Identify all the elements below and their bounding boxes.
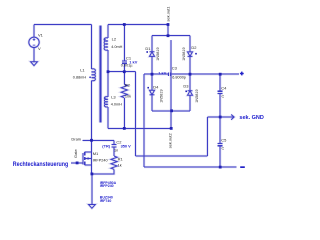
wire center tap drop: [135, 72, 137, 156]
node drain: [90, 139, 93, 142]
svg-text:0.88mH: 0.88mH: [73, 76, 87, 80]
diode D4: [150, 90, 155, 95]
svg-text:R2: R2: [125, 83, 131, 88]
svg-text:V: V: [38, 46, 41, 51]
wire bridge bottom rail: [152, 110, 190, 112]
diode D1: [150, 52, 155, 57]
wire sek.out1 rail: [108, 24, 168, 26]
svg-text:6.8000p: 6.8000p: [172, 75, 186, 79]
svg-text:0.001µ: 0.001µ: [121, 64, 134, 68]
capacitor C4: [218, 91, 223, 93]
resistor R1: [111, 156, 117, 169]
transistor M1 drain/body/source arms: [85, 152, 92, 165]
voltage source V1: [29, 37, 39, 47]
wire sek.out1 drop: [167, 25, 169, 36]
wire minus bottom rail: [144, 166, 236, 168]
svg-text:(TR): (TR): [102, 144, 110, 149]
ground (V1): [31, 62, 38, 66]
wire drain rail: [83, 139, 114, 141]
node R2 bottom: [123, 127, 126, 130]
wire source to ground: [91, 174, 93, 205]
svg-text:C4: C4: [221, 85, 227, 90]
transformer core: [100, 26, 101, 123]
capacitor C1: [122, 61, 127, 63]
wire center tap to GND link: [136, 155, 208, 157]
node bridge bottom center: [170, 109, 173, 112]
mark near D2: [195, 53, 197, 55]
wire D4 bottom lead: [151, 95, 153, 111]
inductor L2: [104, 38, 108, 50]
mark near D1: [146, 51, 148, 53]
wire secondary middle: [107, 50, 109, 97]
svg-text:Gate: Gate: [73, 149, 78, 158]
wire minus drop: [143, 74, 145, 167]
svg-text:IRFP240: IRFP240: [100, 184, 114, 188]
svg-text:C: C: [222, 147, 225, 151]
svg-text:350 V: 350 V: [121, 143, 132, 148]
wire C5 bottom lead: [219, 146, 221, 167]
node source: [91, 173, 94, 176]
wire V1 top pin: [33, 25, 35, 38]
svg-text:1 kV: 1 kV: [158, 71, 166, 76]
svg-text:1N5819: 1N5819: [182, 47, 186, 60]
svg-text:1n: 1n: [114, 149, 118, 153]
wire C2 bottom lead: [113, 147, 115, 156]
svg-text:C5: C5: [221, 137, 227, 142]
wire C5 top lead: [219, 117, 221, 143]
node D1-D4 midpoint: [151, 73, 154, 76]
svg-text:sek.out2: sek.out2: [168, 133, 173, 149]
wire L2 top lead: [107, 25, 109, 39]
transistor M1 right bar: [91, 152, 93, 165]
svg-text:1N5819: 1N5819: [156, 47, 160, 60]
node C5 minus tap: [219, 166, 222, 169]
node C1/R2: [123, 70, 126, 73]
ground (M1 source): [89, 205, 96, 209]
wire D3 top lead: [189, 74, 191, 91]
node bridge top center: [167, 34, 170, 37]
wire D2 top lead: [189, 36, 191, 52]
svg-text:L3: L3: [111, 95, 116, 100]
wire sek.out2 left rail: [108, 127, 171, 129]
svg-text:4.0mH: 4.0mH: [111, 103, 122, 107]
wire C2 top lead: [113, 140, 115, 144]
inductor L1: [92, 69, 96, 81]
node sek GND: [219, 116, 222, 119]
diode D3: [188, 91, 193, 96]
node gate label: [76, 162, 79, 165]
node sek.out1: [167, 23, 170, 26]
wire D4 top lead: [151, 74, 153, 90]
svg-text:L2: L2: [112, 37, 117, 42]
wire D1 top lead: [151, 36, 153, 52]
wire plus rail: [171, 73, 239, 75]
wire sek GND rail: [207, 116, 233, 118]
wire gate: [71, 162, 83, 164]
wire V1 bottom pin: [33, 48, 35, 62]
svg-text:IRF740: IRF740: [100, 199, 112, 203]
wire V1 top rail: [34, 24, 92, 26]
svg-text:L1: L1: [80, 68, 85, 73]
svg-text:V1: V1: [38, 32, 44, 37]
wire minus rail segment: [144, 73, 168, 75]
svg-text:D1: D1: [145, 46, 151, 51]
wire D1 bottom lead: [151, 56, 153, 74]
wire R2 top lead: [123, 72, 125, 85]
transistor M1 gate bar: [82, 153, 84, 165]
node sek.out2: [170, 127, 173, 130]
diode D2: [188, 52, 193, 57]
svg-text:10k: 10k: [125, 94, 131, 98]
svg-text:M1: M1: [93, 151, 99, 156]
wire R2 bottom lead: [123, 98, 125, 129]
L1 phase dot: [89, 76, 91, 78]
svg-text:IRFP240: IRFP240: [93, 158, 108, 162]
svg-text:sek. GND: sek. GND: [239, 115, 263, 121]
node sek.out1 C1 tap: [123, 23, 126, 26]
svg-text:R1: R1: [118, 156, 124, 161]
wire center tap rail: [108, 71, 136, 73]
svg-text:sek.out1: sek.out1: [165, 6, 170, 22]
svg-text:D3: D3: [183, 83, 189, 88]
L3 phase dot: [104, 97, 106, 99]
node D2-D3 midpoint: [189, 73, 192, 76]
wire GND riser: [206, 117, 208, 156]
wire C4 top lead: [219, 74, 221, 91]
wire sek.out2 riser (floating top end): [170, 40, 172, 111]
svg-text:1k: 1k: [118, 164, 122, 168]
wire sek.out2 drop: [170, 111, 172, 129]
sek GND arrowhead: [231, 115, 234, 120]
svg-text:C3: C3: [172, 66, 178, 71]
wire R1 bottom lead: [92, 169, 114, 174]
wire L3 bottom lead: [107, 107, 109, 129]
svg-text:Rechteckansteuerung: Rechteckansteuerung: [13, 161, 69, 168]
svg-text:4.0mH: 4.0mH: [111, 45, 122, 49]
svg-text:1N5819: 1N5819: [159, 89, 163, 102]
mark near D4: [147, 87, 149, 89]
svg-text:D4: D4: [153, 85, 159, 90]
capacitor C5: [218, 143, 223, 145]
minus marker: [240, 166, 245, 168]
svg-text:1N5819: 1N5819: [195, 89, 199, 102]
wire bridge top rail: [152, 35, 190, 37]
wire D3 bottom lead: [189, 95, 191, 111]
L2 phase dot: [104, 39, 106, 41]
svg-text:C: C: [222, 95, 225, 99]
resistor R2: [121, 85, 127, 98]
svg-text:Drain: Drain: [71, 136, 81, 141]
node C4 plus tap: [219, 73, 222, 76]
plus marker: [240, 72, 244, 76]
wire D2 bottom lead: [189, 56, 191, 74]
mark near D3: [185, 91, 187, 93]
node center tap: [107, 70, 110, 73]
transistor M1 body arrow: [86, 157, 89, 160]
transistor M1 channel segments: [84, 152, 86, 165]
wire antialias halo layer (decorative): [29, 25, 239, 209]
wire C1 bottom lead: [123, 63, 125, 71]
capacitor C2: [112, 145, 117, 147]
wire C1 top lead: [123, 25, 125, 61]
svg-text:D2: D2: [191, 45, 197, 50]
capacitor C3: [168, 72, 170, 76]
wire L1 top lead: [91, 25, 93, 70]
wire C4 bottom lead: [219, 94, 221, 117]
wire source pin: [91, 165, 93, 174]
wire L1 bottom to drain: [91, 81, 93, 153]
inductor L3: [104, 97, 108, 107]
